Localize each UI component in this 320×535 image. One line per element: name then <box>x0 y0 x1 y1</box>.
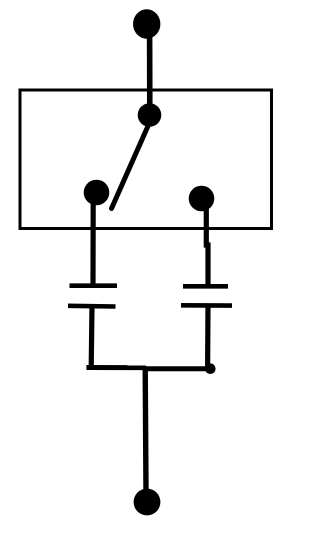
wire top terminal to switch pivot <box>147 30 153 110</box>
relay/switch box outline <box>20 90 272 229</box>
switch pivot node <box>138 103 162 127</box>
capacitor C1 top plate <box>70 283 118 288</box>
switch blade <box>112 126 149 209</box>
junction blob right end <box>205 363 216 374</box>
bottom junction wire right half <box>146 366 211 371</box>
switch throw node left <box>84 180 110 206</box>
capacitor C1 bottom plate <box>68 303 116 308</box>
capacitor C2 top plate <box>183 284 228 289</box>
wire right node to capacitor C2 <box>206 204 208 286</box>
wire left node to capacitor C1 <box>90 198 95 285</box>
wire capacitor C2 to bottom junction <box>205 305 211 369</box>
switch throw node right <box>189 186 215 212</box>
bottom junction wire left half <box>86 365 146 370</box>
top terminal node <box>133 9 160 38</box>
bottom terminal node <box>134 489 161 516</box>
wire bottom junction to bottom terminal <box>142 367 148 492</box>
wire capacitor C1 to bottom junction <box>89 306 95 368</box>
capacitor C2 bottom plate <box>181 303 232 308</box>
